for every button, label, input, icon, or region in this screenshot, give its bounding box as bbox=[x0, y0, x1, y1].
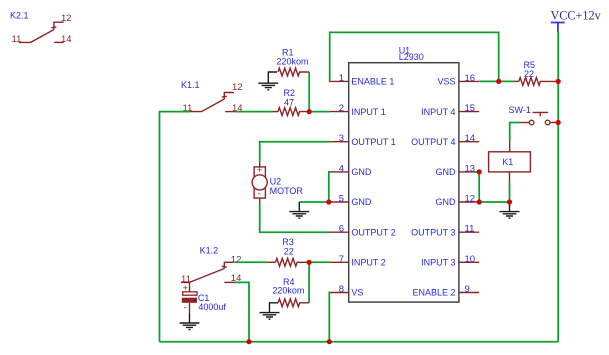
wire: pin7 junction down to R4 bbox=[308, 262, 310, 303]
svg-text:ENABLE 2: ENABLE 2 bbox=[412, 288, 455, 298]
wire: K1.2 pin12 to R3 bbox=[235, 261, 269, 263]
svg-text:12: 12 bbox=[232, 82, 243, 93]
svg-text:14: 14 bbox=[232, 103, 243, 114]
wire: K1.1 pin11 to left rail bbox=[160, 112, 191, 342]
svg-text:4: 4 bbox=[339, 163, 344, 174]
svg-text:GND: GND bbox=[351, 167, 372, 177]
IC left pin names bbox=[351, 77, 395, 298]
wire: ENABLE1 to VSS top loop bbox=[330, 32, 499, 81]
junction: pin12 stub end bbox=[477, 199, 482, 204]
svg-text:-: - bbox=[184, 303, 187, 314]
svg-text:10: 10 bbox=[465, 254, 476, 265]
resistor R5 bbox=[514, 60, 558, 86]
wire: OUTPUT1 pin3 to motor top bbox=[260, 142, 330, 163]
svg-text:L2930: L2930 bbox=[399, 52, 424, 62]
wire: K1.1 pin14 to R2 bbox=[235, 111, 273, 113]
svg-text:6: 6 bbox=[339, 224, 344, 235]
IC U1 L2930 body bbox=[349, 45, 459, 302]
ground at R1 bbox=[258, 72, 278, 90]
wire: K1.2 pin14 to bottom rail bbox=[235, 282, 249, 341]
pushbutton SW-1 bbox=[509, 105, 559, 125]
svg-text:INPUT 1: INPUT 1 bbox=[351, 107, 385, 117]
ground at C1 bbox=[180, 313, 200, 330]
svg-text:2: 2 bbox=[339, 103, 344, 114]
svg-text:VCC+12v: VCC+12v bbox=[551, 9, 602, 23]
wire: R2 to IC pin2 bbox=[309, 111, 330, 113]
svg-text:K1: K1 bbox=[502, 157, 513, 167]
svg-text:15: 15 bbox=[465, 103, 476, 114]
junction: pin4/pin5 gnd bbox=[326, 199, 331, 204]
wire: R1 to pin2 net bbox=[308, 72, 310, 112]
IC right pin stubs 16-9 bbox=[459, 81, 479, 292]
wire: pin13 down to pin12 row bbox=[479, 172, 509, 202]
capacitor C1 bbox=[182, 283, 227, 314]
junction: K1.2 pin14 at bottom rail bbox=[246, 339, 251, 344]
IC right pin names bbox=[411, 77, 456, 298]
junction: VS drop at bottom rail bbox=[327, 339, 332, 344]
resistor R3 bbox=[268, 237, 309, 266]
svg-text:1: 1 bbox=[339, 73, 344, 84]
wire: VS pin8 to bottom rail bbox=[328, 293, 331, 342]
relay contact K1.2 bbox=[181, 246, 241, 292]
wire: VSS pin16 to R5 bbox=[479, 80, 514, 82]
junction: R3/R4 at pin7 bbox=[307, 260, 312, 265]
svg-text:OUTPUT 2: OUTPUT 2 bbox=[351, 227, 395, 237]
power symbol VCC+12v bbox=[551, 9, 602, 32]
svg-text:INPUT 4: INPUT 4 bbox=[421, 107, 455, 117]
wire: pin13 green tail bbox=[474, 171, 479, 173]
svg-text:VSS: VSS bbox=[437, 77, 455, 87]
wire: VCC rail down right side bbox=[557, 32, 559, 342]
wire: GND pin4 drop bbox=[329, 172, 330, 202]
svg-text:12: 12 bbox=[465, 194, 476, 205]
svg-text:220kom: 220kom bbox=[277, 57, 309, 67]
svg-text:MOTOR: MOTOR bbox=[270, 186, 304, 196]
resistor R2 bbox=[273, 88, 310, 115]
svg-text:13: 13 bbox=[465, 163, 476, 174]
svg-text:GND: GND bbox=[436, 197, 457, 207]
junction: under K1 bbox=[507, 199, 512, 204]
svg-text:K1.1: K1.1 bbox=[181, 80, 200, 90]
wire: R3 to IC pin7 bbox=[309, 261, 330, 263]
svg-text:INPUT 2: INPUT 2 bbox=[351, 258, 385, 268]
svg-text:INPUT 3: INPUT 3 bbox=[421, 258, 455, 268]
IC left pin numbers bbox=[339, 73, 344, 295]
svg-text:VS: VS bbox=[351, 288, 363, 298]
relay contact K2.1 bbox=[10, 10, 72, 45]
svg-text:16: 16 bbox=[465, 73, 476, 84]
relay coil K1 bbox=[489, 142, 531, 182]
svg-text:4000uf: 4000uf bbox=[198, 302, 226, 312]
junction: loop meets pin16 wire bbox=[496, 79, 501, 84]
ground at R4 bbox=[260, 303, 280, 319]
junction: SW-1 at VCC rail bbox=[556, 120, 561, 125]
svg-text:47: 47 bbox=[284, 97, 294, 107]
resistor R1 bbox=[277, 47, 310, 76]
ground at motor/pin5 bbox=[289, 202, 309, 218]
svg-text:5: 5 bbox=[339, 194, 344, 205]
svg-text:220kom: 220kom bbox=[272, 286, 304, 296]
svg-text:OUTPUT 1: OUTPUT 1 bbox=[351, 137, 395, 147]
IC right pin numbers bbox=[465, 73, 476, 295]
svg-text:SW-1: SW-1 bbox=[509, 105, 531, 115]
wire: K1 bottom to pin12 net bbox=[509, 182, 511, 202]
svg-text:3: 3 bbox=[339, 133, 344, 144]
svg-text:OUTPUT 3: OUTPUT 3 bbox=[411, 227, 455, 237]
wire: motor bottom to OUTPUT2 pin6 bbox=[260, 203, 330, 232]
svg-text:14: 14 bbox=[465, 133, 476, 144]
svg-text:OUTPUT 4: OUTPUT 4 bbox=[411, 137, 455, 147]
wire: bottom supply rail bbox=[160, 341, 559, 343]
svg-text:22: 22 bbox=[284, 246, 294, 256]
svg-text:8: 8 bbox=[339, 284, 344, 295]
svg-text:11: 11 bbox=[12, 34, 22, 45]
svg-text:GND: GND bbox=[351, 197, 372, 207]
junction: R5 at VCC rail bbox=[556, 79, 561, 84]
svg-text:9: 9 bbox=[465, 284, 470, 295]
svg-text:K2.1: K2.1 bbox=[10, 10, 29, 20]
svg-text:K1.2: K1.2 bbox=[200, 246, 219, 256]
relay contact K1.1 bbox=[181, 80, 243, 114]
junction: pin13 stub end bbox=[477, 169, 482, 174]
svg-text:GND: GND bbox=[436, 167, 457, 177]
wire: SW-1 to K1 coil bbox=[510, 123, 521, 142]
resistor R4 bbox=[272, 277, 309, 307]
ground at K1 / pin12 bbox=[500, 202, 520, 218]
svg-text:11: 11 bbox=[465, 224, 475, 235]
motor U2 bbox=[252, 162, 303, 203]
svg-text:12: 12 bbox=[231, 255, 242, 266]
wire: GND pin5 to ground bbox=[299, 201, 330, 203]
svg-text:14: 14 bbox=[61, 34, 72, 45]
svg-text:ENABLE 1: ENABLE 1 bbox=[351, 77, 394, 87]
IC left pin stubs 1-8 bbox=[330, 81, 349, 292]
junction: R1/R2 at pin2 bbox=[307, 109, 312, 114]
svg-text:7: 7 bbox=[339, 254, 344, 265]
